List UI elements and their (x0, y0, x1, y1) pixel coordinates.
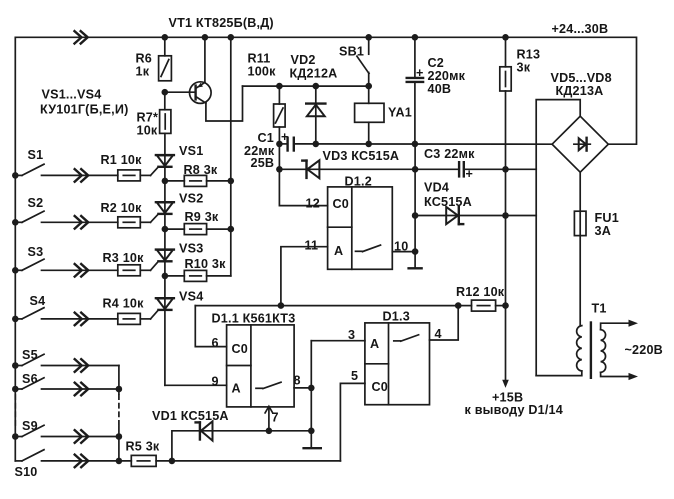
svg-text:12: 12 (306, 197, 320, 211)
svg-text:R8 3к: R8 3к (184, 163, 218, 177)
switch S3 (15, 245, 118, 277)
svg-text:1к: 1к (136, 65, 150, 79)
node R9 left (162, 226, 169, 233)
svg-text:S5: S5 (22, 348, 38, 362)
svg-text:S3: S3 (28, 245, 44, 259)
svg-text:VD5...VD8: VD5...VD8 (551, 71, 612, 85)
node top of R6 (162, 34, 169, 41)
node C2 bottom on mid bus (412, 141, 419, 148)
svg-text:A: A (370, 337, 379, 351)
diode VD3 (279, 149, 415, 178)
svg-text:КУ101Г(Б,Е,И): КУ101Г(Б,Е,И) (40, 103, 128, 117)
node VD4 left junction (412, 212, 419, 219)
switch S10 (15, 450, 132, 479)
node S5 on left bus (12, 362, 19, 369)
svg-text:R12 10к: R12 10к (456, 285, 505, 299)
switch S6 (15, 372, 119, 395)
wire: vertical C2 node down to ground below D1.2 (414, 144, 416, 268)
resistor R12 (456, 285, 506, 311)
svg-text:10к: 10к (137, 124, 158, 138)
wire: D1.2 pin 10 to ground vertical (392, 251, 415, 253)
resistor R11 (248, 52, 286, 144)
svg-text:КД212А: КД212А (290, 67, 338, 81)
svg-text:S1: S1 (28, 148, 44, 162)
svg-text:220мк: 220мк (428, 69, 466, 83)
node C3 right junction on R13 vertical (502, 166, 509, 173)
svg-text:9: 9 (212, 375, 219, 389)
node R13 top (502, 34, 509, 41)
svg-text:+: + (466, 167, 474, 181)
wire: S5/S6/S9 join vertical x=118.9 (118, 366, 120, 461)
node S6 on left bus (12, 386, 19, 393)
node C2 top (412, 34, 419, 41)
thyristor VS1 (151, 144, 204, 175)
svg-text:D1.3: D1.3 (383, 310, 410, 324)
node S2 on left bus (12, 219, 19, 226)
wire: vertical from C1 node down to D1.2 pin 12 (279, 144, 327, 206)
svg-text:VD1 КС515А: VD1 КС515А (152, 409, 229, 423)
node SB1 bottom (365, 83, 372, 90)
wire: main mid bus y=144 from C1 to bridge left corner (294, 143, 552, 145)
wire: left bus dashed section S6-S9 (14, 395, 16, 427)
diode VD2 (290, 53, 338, 144)
resistor R4 (103, 297, 151, 325)
resistor R3 (103, 251, 151, 276)
svg-text:25В: 25В (251, 156, 275, 170)
svg-text:8: 8 (294, 374, 301, 388)
wire: D1.1 pin 8 out (294, 387, 311, 389)
wire: secondary bottom lead with arrow (601, 372, 638, 380)
svg-text:R9 3к: R9 3к (185, 210, 219, 224)
node VD2 bottom on mid bus (313, 141, 320, 148)
switch S1 (15, 148, 118, 182)
node R9 right (228, 226, 235, 233)
bridge rectifier VD5...VD8 (551, 71, 612, 172)
svg-text:R11: R11 (248, 52, 271, 66)
pin 7 lead with arrowhead (265, 406, 273, 431)
svg-text:S2: S2 (28, 196, 44, 210)
node S4 on left bus (12, 316, 19, 323)
resistor R9 (165, 210, 231, 235)
capacitor C1 (244, 130, 294, 170)
node pin8 junction (308, 385, 315, 392)
svg-text:11: 11 (305, 239, 319, 253)
capacitor C3 (415, 147, 536, 181)
svg-text:FU1: FU1 (595, 211, 619, 225)
IC D1.3 (348, 310, 442, 405)
svg-text:~220В: ~220В (625, 343, 663, 357)
svg-text:T1: T1 (592, 302, 607, 316)
svg-text:R10 3к: R10 3к (185, 257, 227, 271)
svg-text:VS1...VS4: VS1...VS4 (42, 88, 102, 102)
thyristor VS2 (151, 192, 204, 223)
svg-text:S6: S6 (22, 372, 38, 386)
wire: VT1 collector to base-drive bus (206, 86, 243, 121)
svg-text:R13: R13 (517, 48, 541, 62)
svg-text:VD3 КС515А: VD3 КС515А (323, 149, 400, 163)
svg-text:к выводу D1/14: к выводу D1/14 (465, 403, 563, 417)
thyristor VS3 (151, 242, 204, 271)
switch S5 (15, 348, 119, 372)
svg-text:VD2: VD2 (291, 53, 316, 67)
wire chevron on top bus (75, 31, 88, 43)
diode VD4 (415, 181, 536, 225)
svg-text:R6: R6 (136, 52, 153, 66)
node VD3 anode-row junction (276, 166, 283, 173)
svg-text:C0: C0 (232, 342, 249, 356)
ground below D1.2 (409, 267, 422, 269)
svg-text:SB1: SB1 (339, 45, 364, 59)
wire: R13 bottom down to R12 right node (505, 91, 507, 306)
node S1 on left bus (12, 172, 19, 179)
node R12 left (455, 302, 462, 309)
resistor R2 (101, 201, 151, 228)
svg-text:C2: C2 (428, 56, 445, 70)
svg-text:R4 10к: R4 10к (103, 297, 145, 311)
wire: secondary top lead with arrow (601, 320, 638, 330)
svg-text:R5 3к: R5 3к (126, 440, 160, 454)
svg-text:R2 10к: R2 10к (101, 201, 143, 215)
svg-text:VT1 КТ825Б(В,Д): VT1 КТ825Б(В,Д) (169, 16, 274, 30)
node top of R8-R10 vertical (228, 34, 235, 41)
svg-text:D1.2: D1.2 (345, 175, 372, 189)
svg-text:R1 10к: R1 10к (101, 153, 143, 167)
node R10 left (162, 273, 169, 280)
switch S9 (15, 419, 119, 443)
wire: branch up to VD1 row (172, 431, 311, 461)
relay YA1 (355, 86, 412, 144)
svg-text:4: 4 (435, 327, 442, 341)
wire: vertical from top bus to R10 right (230, 37, 232, 276)
resistor R13 (500, 37, 540, 91)
resistor R10 (165, 257, 231, 281)
node S9 on left bus (12, 433, 19, 440)
node top of VT1 emitter (202, 34, 209, 41)
resistor R6 (136, 37, 172, 81)
svg-text:5: 5 (351, 369, 358, 383)
wire: +15V arrow down (502, 306, 509, 388)
svg-text:S9: S9 (22, 419, 38, 433)
switch S2 (15, 196, 118, 229)
svg-text:VD4: VD4 (424, 181, 449, 195)
wire: D1.3 pin 5 feed from bottom bus (340, 383, 365, 461)
node D1.1 pin7 junction (266, 428, 273, 435)
node VD2 top (313, 83, 320, 90)
resistor R8 (165, 163, 231, 186)
ground below pin7 row (304, 447, 321, 449)
svg-text:VS4: VS4 (179, 290, 203, 304)
node VT1 base / R6-R7 junction (162, 89, 169, 96)
node ground junction lower (308, 428, 315, 435)
svg-text:C1: C1 (258, 131, 275, 145)
wire: top +24V emitter bus from left corner to top-right corner (15, 37, 636, 461)
svg-text:3: 3 (348, 328, 355, 342)
wire: thyristor cathode column (164, 133, 166, 385)
svg-text:100к: 100к (248, 65, 277, 79)
node R8 left (162, 178, 169, 185)
wire: bridge bottom to fuse and primary (579, 172, 581, 325)
svg-text:VS2: VS2 (179, 192, 203, 206)
svg-text:C3 22мк: C3 22мк (424, 147, 475, 161)
fuse FU1 (574, 211, 619, 238)
diode VD1 (152, 409, 229, 441)
node R5 right / VD1 branch (169, 458, 176, 465)
node SB1 top (365, 34, 372, 41)
svg-text:+24...30В: +24...30В (552, 22, 609, 36)
switch S4 (15, 294, 118, 325)
svg-text:A: A (334, 244, 343, 258)
node C3 left junction (412, 166, 419, 173)
svg-text:3к: 3к (517, 61, 531, 75)
switch SB1 (339, 37, 369, 86)
node S10 join (116, 458, 123, 465)
wire: VS4 column to D1.1 pin 9 (165, 384, 227, 386)
svg-text:40В: 40В (428, 82, 452, 96)
node S3 on left bus (12, 267, 19, 274)
transformer T1 (536, 302, 606, 378)
resistor R5 (126, 440, 341, 467)
wire: lower bus y=305.6 (D1.2 pin11 / D1.1 pin6 / R12) (195, 305, 458, 307)
svg-text:+: + (281, 130, 289, 144)
wire: D1.1 pin 6 feed (195, 306, 226, 347)
node D1.2 pin11 branch (278, 302, 285, 309)
svg-text:R3 10к: R3 10к (103, 251, 145, 265)
svg-text:S4: S4 (30, 294, 46, 308)
IC D1.2 (305, 175, 409, 270)
node R8 right (228, 178, 235, 185)
node S6 join (116, 386, 123, 393)
transistor VT1 (165, 37, 211, 103)
wire: base drive bus y=86 (243, 85, 369, 87)
svg-text:6: 6 (212, 336, 219, 350)
capacitor C2 (407, 37, 466, 144)
svg-text:3А: 3А (595, 224, 612, 238)
node YA1 bottom on mid bus (365, 141, 372, 148)
svg-text:YA1: YA1 (388, 106, 412, 120)
node VD4 right junction on R13 vertical (502, 212, 509, 219)
svg-text:R7*: R7* (137, 111, 159, 125)
svg-text:VS1: VS1 (179, 144, 203, 158)
IC D1.1 (212, 312, 301, 425)
wire: pin8/pin3 vertical down to ground (310, 341, 312, 449)
node R12 right (502, 302, 509, 309)
wire: D1.3 pin 4 up to R12 node (430, 306, 459, 340)
svg-text:+: + (416, 66, 424, 80)
resistor R1 (101, 153, 151, 181)
node R11 top (276, 83, 283, 90)
svg-text:КД213А: КД213А (556, 84, 604, 98)
wire: D1.2 pin 11 to lower bus (281, 247, 328, 306)
node D1.2 pin10 junction (412, 248, 419, 255)
wire: bridge top loop to transformer primary return (536, 100, 580, 376)
node S9 join (116, 433, 123, 440)
svg-text:S10: S10 (15, 465, 38, 479)
node C1/R11 junction (276, 141, 283, 148)
resistor R7 (137, 92, 171, 137)
svg-text:КС515А: КС515А (424, 195, 472, 209)
svg-text:C0: C0 (333, 197, 350, 211)
svg-text:A: A (232, 382, 241, 396)
thyristor VS4 (151, 290, 204, 319)
wire: D1.3 pin 3 feed (311, 340, 365, 342)
svg-text:C0: C0 (372, 380, 389, 394)
svg-text:VS3: VS3 (179, 242, 203, 256)
svg-text:D1.1 К561КТ3: D1.1 К561КТ3 (212, 312, 296, 326)
